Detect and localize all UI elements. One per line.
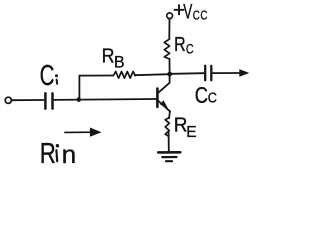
label Cc — [195, 83, 217, 109]
capacitor Cc — [205, 66, 211, 80]
output arrow head — [239, 69, 249, 77]
transistor Q1 collector lead — [158, 75, 169, 93]
Rin arrow — [65, 131, 97, 133]
svg-text:C: C — [40, 61, 55, 92]
resistor RB — [113, 72, 135, 79]
svg-text:R: R — [102, 46, 115, 68]
resistor RC — [164, 37, 169, 59]
wire Cc to output arrow — [213, 72, 241, 74]
wire RB right segment to collector node — [135, 74, 170, 75]
transistor Q1 emitter arrow — [160, 100, 168, 109]
wire collector node up to RC — [169, 59, 171, 73]
label Rin — [40, 138, 76, 169]
wire input to Ci — [12, 99, 44, 101]
label +Vcc — [173, 0, 208, 23]
label RB — [102, 46, 125, 72]
wire emitter to RE — [168, 111, 171, 118]
ground — [158, 152, 180, 161]
node A (junction dot) — [77, 97, 82, 102]
svg-text:R: R — [40, 138, 56, 167]
svg-text:C: C — [208, 89, 217, 106]
label RE — [174, 114, 197, 141]
wire RE to ground — [168, 132, 170, 151]
svg-text:n: n — [62, 142, 77, 167]
Vcc terminal (open circle) — [167, 13, 173, 19]
wire Ci to base — [54, 98, 156, 101]
svg-text:B: B — [114, 53, 125, 71]
label Ci — [40, 61, 58, 92]
wire RC to Vcc terminal — [168, 19, 170, 38]
Ci subscript i — [55, 74, 58, 77]
Rin i — [56, 144, 59, 147]
wire node A up to RB row — [78, 76, 80, 100]
svg-text:C: C — [200, 9, 207, 22]
input terminal (open circle) — [5, 97, 11, 103]
node B (collector junction dot) — [167, 72, 172, 77]
label RC — [174, 32, 194, 56]
wire collector node to Cc — [172, 72, 204, 75]
svg-text:V: V — [183, 0, 192, 23]
resistor RE — [165, 118, 169, 137]
wire RB left segment — [79, 75, 113, 77]
transistor Q1 base bar — [156, 89, 159, 107]
capacitor Ci — [45, 93, 52, 108]
svg-text:C: C — [193, 9, 200, 22]
svg-text:E: E — [186, 124, 196, 141]
transistor Q1 emitter lead — [158, 101, 170, 111]
svg-text:R: R — [174, 32, 186, 55]
svg-text:C: C — [195, 83, 208, 109]
svg-text:C: C — [186, 41, 194, 57]
